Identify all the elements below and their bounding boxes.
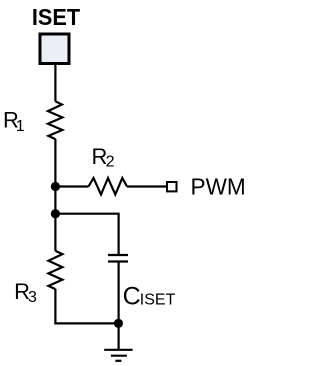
terminal PWM: [167, 182, 177, 191]
svg-text:ISET: ISET: [32, 4, 80, 30]
wire R3 to bottom node: [54, 289, 56, 323]
svg-text:PWM: PWM: [191, 174, 246, 200]
svg-text:2: 2: [106, 154, 115, 171]
wire bottom node to ground: [117, 323, 119, 349]
wire pad to R1: [54, 65, 56, 102]
ground: [104, 350, 132, 361]
wire node B to R3: [54, 214, 56, 251]
wire node A to R2: [55, 185, 88, 187]
wire bottom rail: [54, 322, 118, 324]
junction node A: [51, 182, 60, 191]
wire capacitor to bottom node: [117, 263, 119, 324]
svg-text:C: C: [123, 283, 141, 311]
junction bottom node: [114, 319, 123, 328]
svg-text:ISET: ISET: [140, 292, 176, 309]
wire R2 to PWM terminal: [127, 185, 166, 187]
capacitor CISET top plate: [108, 254, 128, 256]
terminal pad ISET: [40, 34, 69, 64]
svg-text:3: 3: [28, 289, 37, 306]
wire node B to capacitor branch: [55, 214, 118, 254]
wire R1 to node A: [54, 139, 56, 187]
capacitor CISET bottom plate: [108, 260, 128, 262]
svg-text:1: 1: [16, 118, 25, 135]
resistor R3: [48, 251, 62, 289]
resistor R2: [89, 178, 128, 195]
wire node A to node B: [54, 187, 56, 214]
junction node B: [51, 209, 60, 218]
resistor R1: [48, 101, 63, 139]
